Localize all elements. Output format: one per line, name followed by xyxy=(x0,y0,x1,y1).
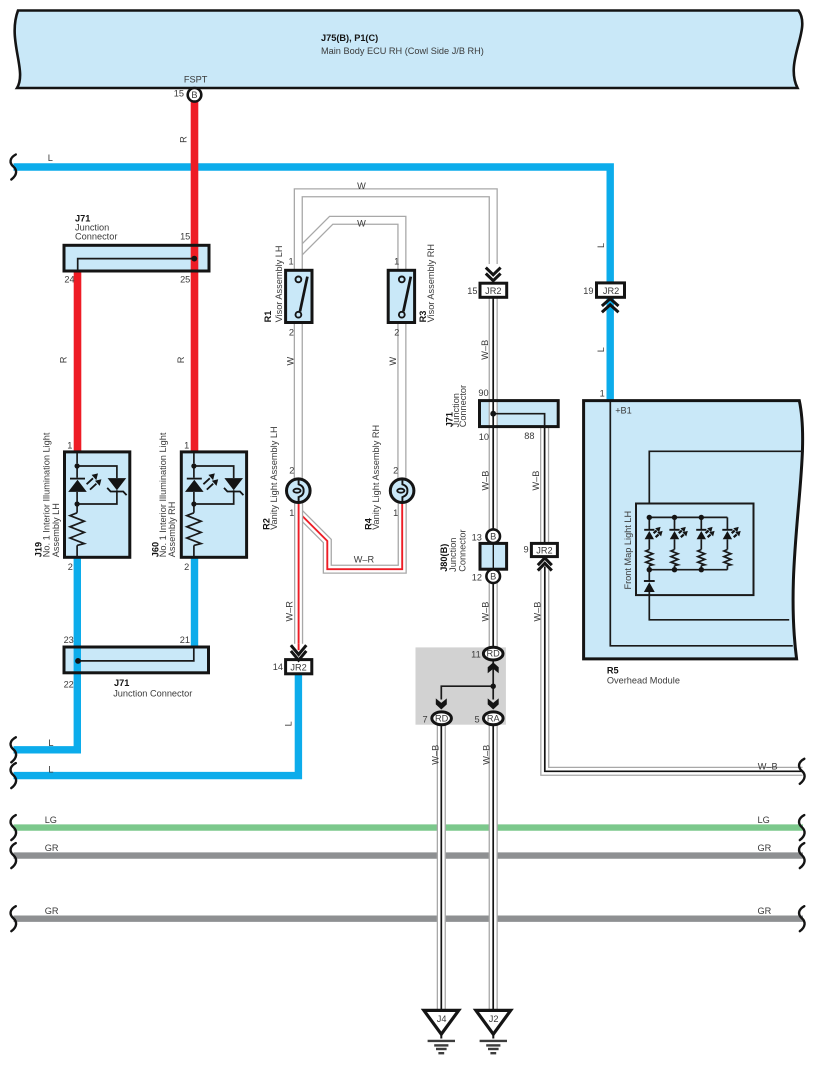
connector pin 5 RA xyxy=(484,712,504,725)
svg-text:L: L xyxy=(48,738,53,748)
ground J4 xyxy=(424,1010,459,1053)
connector pin 13 B xyxy=(486,529,500,543)
svg-text:25: 25 xyxy=(180,275,190,285)
svg-text:2: 2 xyxy=(289,328,294,338)
connector pin 11 RD xyxy=(483,647,503,660)
wire GR bus 1 xyxy=(14,852,804,858)
R5 internal top line xyxy=(649,451,804,503)
ECU band J75(B),P1(C) Main Body ECU RH xyxy=(15,11,803,89)
svg-text:1: 1 xyxy=(394,257,399,267)
svg-text:W–R: W–R xyxy=(354,555,375,565)
svg-text:2: 2 xyxy=(289,466,294,476)
svg-text:FSPT: FSPT xyxy=(184,74,208,84)
svg-text:Connector: Connector xyxy=(457,529,467,571)
roof wire shaded box xyxy=(416,647,506,724)
R5 internal bottom line xyxy=(649,595,789,620)
svg-text:Main Body ECU RH (Cowl Side J/: Main Body ECU RH (Cowl Side J/B RH) xyxy=(321,46,484,56)
svg-text:W–B: W–B xyxy=(430,745,440,765)
wire W-B J71 pin88 to 9 JR2 xyxy=(540,427,549,544)
svg-text:21: 21 xyxy=(180,635,190,645)
J19 resistor xyxy=(70,513,84,546)
R5 internal +B1 line xyxy=(610,402,793,646)
svg-text:Junction Connector: Junction Connector xyxy=(113,689,192,699)
svg-text:W–B: W–B xyxy=(481,602,491,622)
svg-text:LG: LG xyxy=(45,815,57,825)
svg-text:J75(B), P1(C): J75(B), P1(C) xyxy=(321,33,378,43)
vanity light bulb R2 xyxy=(287,479,311,503)
break symbols xyxy=(11,155,805,932)
J71 lower junction dot xyxy=(75,658,81,664)
svg-text:J4: J4 xyxy=(437,1014,447,1024)
break L bus top xyxy=(11,155,17,180)
svg-text:JR2: JR2 xyxy=(485,286,501,296)
svg-text:J2: J2 xyxy=(489,1014,499,1024)
connector 15 JR2 chevrons xyxy=(484,264,503,282)
svg-text:L: L xyxy=(283,721,293,726)
svg-text:RD: RD xyxy=(487,649,501,659)
J71 right junction dot xyxy=(490,411,496,417)
top bus xyxy=(649,516,727,518)
svg-text:W–B: W–B xyxy=(480,340,490,360)
svg-text:R: R xyxy=(179,136,189,143)
wire L main bus (top) xyxy=(14,167,611,283)
wire W R1 pin2 to R2 xyxy=(294,323,303,480)
svg-text:2: 2 xyxy=(393,466,398,476)
svg-text:2: 2 xyxy=(184,562,189,572)
svg-text:L: L xyxy=(596,243,606,248)
svg-text:Visor Assembly LH: Visor Assembly LH xyxy=(274,245,284,322)
connector 19 JR2 box xyxy=(597,283,625,297)
svg-text:Overhead Module: Overhead Module xyxy=(607,676,680,686)
svg-text:R: R xyxy=(176,356,186,363)
svg-text:LG: LG xyxy=(758,815,770,825)
svg-text:90: 90 xyxy=(478,388,488,398)
wire L (19 JR2 to R5) xyxy=(607,297,614,402)
svg-text:11: 11 xyxy=(471,650,481,660)
connector borders and internals xyxy=(64,245,558,673)
arrow down into 7 RD xyxy=(436,698,447,709)
wire W R3 pin1 to junction above R1 xyxy=(298,220,402,270)
svg-text:1: 1 xyxy=(184,441,189,451)
grey box arrows and circles xyxy=(188,88,503,725)
svg-text:1: 1 xyxy=(600,389,605,399)
svg-text:1: 1 xyxy=(289,508,294,518)
grounds xyxy=(424,1010,511,1053)
svg-text:GR: GR xyxy=(45,843,59,853)
JR2 boxes and chevrons xyxy=(286,264,625,674)
top bus junction dots xyxy=(647,515,652,520)
svg-text:GR: GR xyxy=(758,906,772,916)
svg-text:W–B: W–B xyxy=(481,745,491,765)
LED branch 2 xyxy=(669,517,687,569)
J60 junction dots xyxy=(191,463,196,468)
svg-text:14: 14 xyxy=(273,662,283,672)
svg-text:W–B: W–B xyxy=(758,762,778,772)
svg-text:GR: GR xyxy=(758,843,772,853)
break GR1 right xyxy=(799,843,805,868)
svg-text:Front Map Light LH: Front Map Light LH xyxy=(623,511,633,590)
svg-text:L: L xyxy=(48,765,53,775)
connector pin 12 B xyxy=(486,569,500,583)
wire W-B 7 RD to ground J4 xyxy=(437,725,446,1010)
ECU pin 15 B xyxy=(188,88,202,102)
svg-text:W–B: W–B xyxy=(481,471,491,491)
svg-text:JR2: JR2 xyxy=(536,546,552,556)
LED branch 4 xyxy=(722,517,740,569)
svg-text:R1: R1 xyxy=(263,311,273,323)
wire L lower bus to 14 JR2 xyxy=(14,673,299,776)
svg-text:RD: RD xyxy=(435,713,449,723)
J71 lower internal bus xyxy=(78,648,194,661)
connector 15 JR2 box xyxy=(480,283,507,297)
svg-text:88: 88 xyxy=(524,431,534,441)
J71 right internal bus xyxy=(493,414,544,426)
svg-text:RA: RA xyxy=(487,713,501,723)
svg-text:12: 12 xyxy=(472,573,482,583)
svg-text:J71: J71 xyxy=(114,678,129,688)
J19 zener diode xyxy=(108,478,127,490)
J71 top junction dot xyxy=(191,256,197,262)
svg-text:5: 5 xyxy=(474,714,479,724)
wire R from ECU pin B through J71 pin15/25 to J60 pin1 xyxy=(191,101,199,452)
svg-text:W–B: W–B xyxy=(531,471,541,491)
break W-B right xyxy=(799,759,805,784)
J60 resistor xyxy=(187,513,201,546)
break GR2 right xyxy=(799,906,805,931)
svg-text:No. 1 Interior Illumination Li: No. 1 Interior Illumination Light xyxy=(41,432,51,557)
connector 19 JR2 chevrons xyxy=(602,299,619,313)
svg-text:22: 22 xyxy=(64,679,74,689)
wire L J19 pin2 to J71 pin23/22 to break xyxy=(14,558,78,750)
svg-text:B: B xyxy=(191,90,197,100)
svg-text:R5: R5 xyxy=(607,665,619,675)
break GR1 left xyxy=(11,843,17,868)
arrow down into 5 RA xyxy=(488,698,499,709)
break L bus lower 1 xyxy=(11,737,17,762)
break L bus lower 2 xyxy=(11,763,17,788)
junction dot xyxy=(491,684,496,689)
connector 9 JR2 chevrons xyxy=(538,558,552,571)
R1 R3 switches, R2 R4 bulbs xyxy=(286,270,415,502)
svg-text:7: 7 xyxy=(422,714,427,724)
J60 assembly xyxy=(181,452,246,557)
break GR2 left xyxy=(11,906,17,931)
J71 top internal bus xyxy=(78,259,195,271)
double-line wires xyxy=(298,193,802,1010)
svg-text:B: B xyxy=(490,532,496,542)
svg-text:W: W xyxy=(286,356,296,365)
ground J2 xyxy=(476,1010,511,1053)
J60 zener diode xyxy=(224,478,243,490)
svg-text:R: R xyxy=(58,356,68,363)
svg-text:GR: GR xyxy=(45,906,59,916)
LED branch 3 xyxy=(696,517,714,569)
svg-text:Assembly RH: Assembly RH xyxy=(167,502,177,558)
svg-text:Connector: Connector xyxy=(458,385,468,427)
diode D1 bottom xyxy=(648,570,650,595)
svg-text:W–R: W–R xyxy=(284,601,294,622)
svg-text:23: 23 xyxy=(64,635,74,645)
J60 internal wiring xyxy=(194,453,234,557)
svg-text:B: B xyxy=(490,572,496,582)
vanity light bulb R4 xyxy=(390,479,414,503)
svg-text:1: 1 xyxy=(393,508,398,518)
svg-text:15: 15 xyxy=(180,232,190,242)
svg-text:JR2: JR2 xyxy=(290,662,306,672)
junction connector J71 (right) border xyxy=(480,401,559,427)
connector 9 JR2 box xyxy=(531,543,557,556)
svg-text:15: 15 xyxy=(174,89,184,99)
J60 LED xyxy=(187,478,202,480)
svg-text:W: W xyxy=(357,219,366,229)
svg-text:1: 1 xyxy=(67,441,72,451)
wire W R1 pin1 to 15 JR2 xyxy=(298,193,493,270)
break LG right xyxy=(799,815,805,840)
svg-text:W: W xyxy=(357,181,366,191)
svg-text:Vanity Light Assembly LH: Vanity Light Assembly LH xyxy=(269,426,279,530)
R5 overhead module box xyxy=(584,401,803,659)
svg-text:Vanity Light Assembly RH: Vanity Light Assembly RH xyxy=(371,425,381,530)
front map light internal circuit xyxy=(644,515,741,595)
junction connector J71 (lower) border xyxy=(64,647,209,673)
J19 junction dots xyxy=(75,463,80,468)
svg-text:2: 2 xyxy=(68,562,73,572)
wire W-R R2 pin1 to 14 JR2 xyxy=(294,503,303,645)
svg-text:9: 9 xyxy=(523,545,528,555)
break LG left xyxy=(11,815,17,840)
junction connector J80(B) border xyxy=(480,543,507,569)
connector 14 JR2 chevrons xyxy=(289,644,308,659)
junction connector J71 (top) border xyxy=(64,245,209,271)
connector 14 JR2 box xyxy=(286,660,312,674)
svg-text:L: L xyxy=(596,347,606,352)
connector fills xyxy=(64,245,209,271)
wire W-B 9 JR2 to right break xyxy=(545,570,803,772)
svg-text:Connector: Connector xyxy=(75,231,117,241)
svg-text:W: W xyxy=(388,356,398,365)
connector pin 7 RD xyxy=(432,712,452,725)
front map light sub-box xyxy=(636,504,754,596)
bottom bus junction dots xyxy=(647,567,652,572)
J19 assembly xyxy=(65,452,130,557)
visor switch R1 xyxy=(286,270,312,322)
svg-text:JR2: JR2 xyxy=(603,286,619,296)
svg-text:Assembly LH: Assembly LH xyxy=(51,503,61,557)
wire L J60 pin2 to J71 pin21 xyxy=(191,558,198,649)
visor switch R3 xyxy=(388,270,414,322)
J19 internal wiring xyxy=(77,453,117,557)
bottom bus xyxy=(649,569,727,571)
wire W-B 5 RA to ground J2 xyxy=(489,725,498,1010)
wire GR bus 2 xyxy=(14,916,804,922)
arrow up into 11 RD xyxy=(488,662,499,673)
LED branch 1 xyxy=(644,517,662,569)
svg-text:L: L xyxy=(48,153,53,163)
svg-text:13: 13 xyxy=(472,532,482,542)
svg-text:1: 1 xyxy=(288,257,293,267)
J80(B) divider xyxy=(492,543,494,569)
roof harness internal wires xyxy=(441,662,493,700)
wire W R3 pin2 to R4 xyxy=(397,323,406,480)
svg-text:10: 10 xyxy=(479,432,489,442)
svg-text:15: 15 xyxy=(467,286,477,296)
wire LG bus xyxy=(14,824,804,830)
wire R J71 pin24 to J19 pin1 xyxy=(74,271,82,452)
wire W-B J80 pin12 to 11 RD xyxy=(489,579,498,650)
svg-text:W–B: W–B xyxy=(533,602,543,622)
wire W-R R4 pin1 branch to R2 wire xyxy=(299,503,402,569)
svg-text:2: 2 xyxy=(394,328,399,338)
svg-text:19: 19 xyxy=(583,286,593,296)
J19 LED xyxy=(70,478,85,480)
svg-text:Visor Assembly RH: Visor Assembly RH xyxy=(426,244,436,322)
svg-text:24: 24 xyxy=(64,275,74,285)
svg-text:+B1: +B1 xyxy=(615,405,632,415)
wire W-B 15 JR2 to J71 pin90/10 to J80 pin13 xyxy=(489,297,498,532)
